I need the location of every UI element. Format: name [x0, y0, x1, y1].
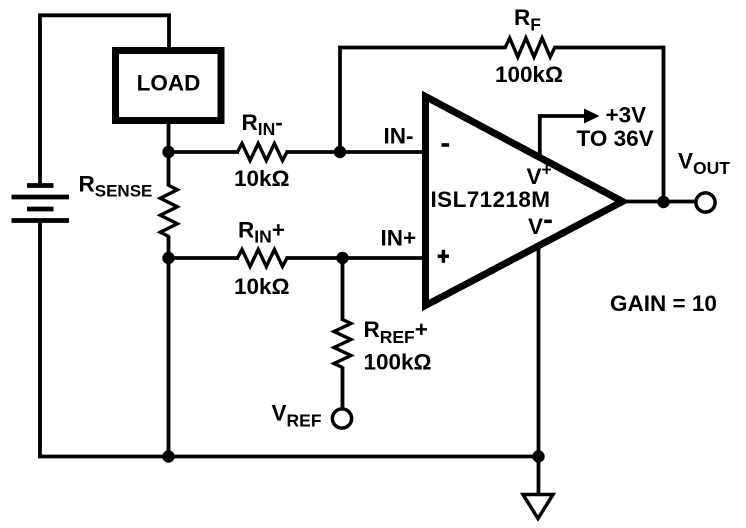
op-amp plus input symbol [438, 250, 449, 263]
wire feedback top left [338, 46, 506, 50]
svg-text:LOAD: LOAD [137, 71, 201, 96]
wire bottom ground rail [38, 455, 538, 459]
svg-text:100kΩ: 100kΩ [495, 62, 563, 87]
wire V+ supply [540, 116, 585, 158]
node RIN+ to RREF junction [336, 252, 348, 264]
node ground rail junction [532, 450, 544, 462]
arrow head +3V supply [584, 109, 600, 124]
svg-text:IN+: IN+ [381, 226, 417, 251]
wire output [621, 200, 695, 204]
svg-text:TO 36V: TO 36V [577, 126, 654, 151]
node output junction [657, 196, 669, 208]
op-amp minus input symbol [442, 143, 450, 147]
svg-text:IN-: IN- [384, 124, 414, 149]
ground symbol [523, 495, 553, 519]
svg-text:RSENSE: RSENSE [79, 172, 153, 201]
resistor RF [505, 38, 554, 57]
svg-text:RREF+: RREF+ [364, 317, 428, 347]
resistor RSENSE [160, 186, 177, 237]
op-amp U1 triangle [426, 97, 623, 306]
svg-text:RIN+: RIN+ [238, 218, 285, 247]
svg-text:+3V: +3V [606, 103, 647, 128]
wire LOAD bottom to IN+ node [167, 121, 171, 187]
svg-text:10kΩ: 10kΩ [234, 166, 290, 191]
wire IN- row left [169, 150, 240, 154]
wire IN- row right [286, 150, 428, 154]
svg-text:ISL71218M: ISL71218M [431, 187, 551, 212]
node RIN- to opamp / feedback junction [334, 146, 346, 158]
wire RREF top lead [341, 258, 345, 321]
svg-text:VREF: VREF [272, 401, 322, 431]
svg-text:10kΩ: 10kΩ [234, 274, 290, 299]
node rail left junction [162, 450, 174, 462]
wire feedback top right [554, 46, 664, 50]
wire IN+ row right [286, 256, 428, 260]
svg-text:GAIN = 10: GAIN = 10 [610, 291, 717, 316]
svg-text:V: V [528, 214, 543, 239]
load box [116, 51, 222, 121]
wire RREF bottom lead [341, 367, 345, 410]
svg-text:100kΩ: 100kΩ [364, 350, 432, 375]
wire battery bottom to ground rail [38, 221, 42, 459]
wire ground stub [537, 457, 541, 495]
terminal VREF [332, 409, 351, 428]
wire battery top to LOAD top [40, 15, 169, 185]
svg-text:VOUT: VOUT [678, 149, 730, 179]
node IN+ sense junction [162, 252, 174, 264]
resistor RREF [334, 320, 351, 368]
resistor RIN- [238, 144, 288, 161]
wire V- to ground rail [537, 238, 541, 458]
wire feedback right vertical [662, 46, 666, 202]
wire IN+ row left [169, 256, 240, 260]
wire RSENSE bottom node to rail [167, 236, 171, 459]
node IN- sense junction [162, 146, 174, 158]
resistor RIN+ [238, 250, 288, 267]
wire feedback left vertical [338, 48, 342, 153]
svg-text:RIN-: RIN- [242, 110, 283, 139]
svg-text:RF: RF [514, 5, 541, 35]
battery BT1 [12, 186, 70, 221]
terminal VOUT [696, 193, 715, 212]
